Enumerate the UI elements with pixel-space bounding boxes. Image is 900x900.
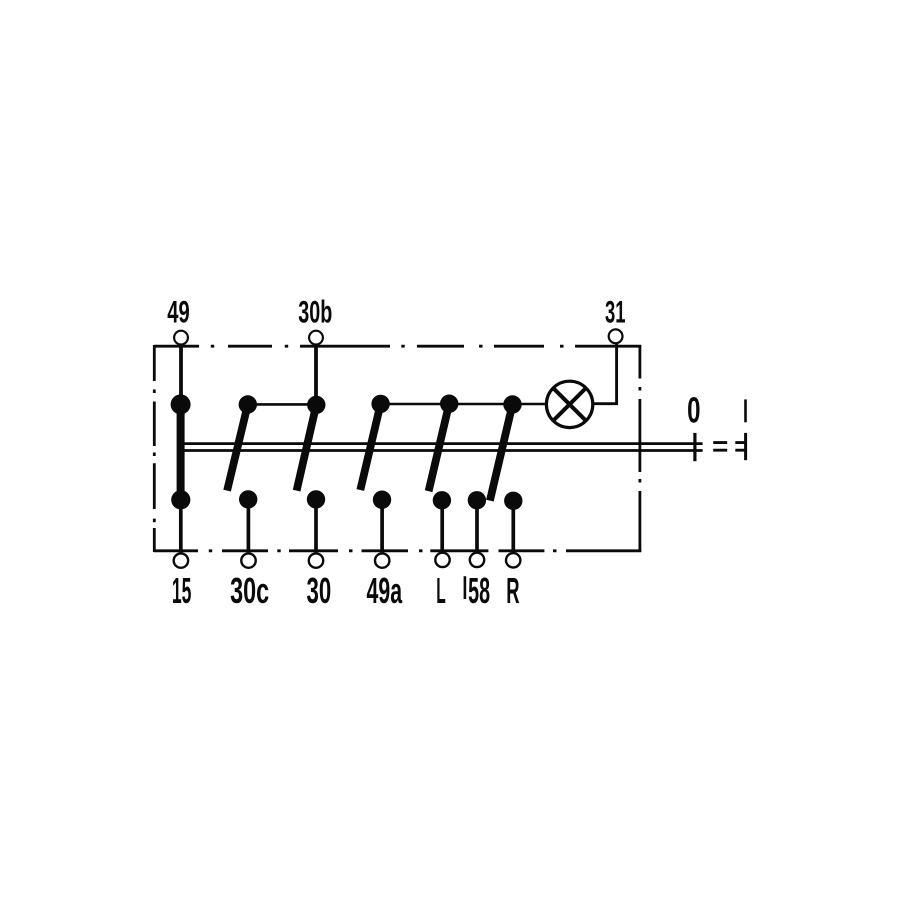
svg-text:30: 30 bbox=[307, 570, 332, 611]
svg-text:R: R bbox=[506, 570, 519, 611]
svg-text:49: 49 bbox=[167, 294, 189, 330]
svg-text:0: 0 bbox=[687, 390, 700, 431]
svg-text:31: 31 bbox=[605, 293, 626, 329]
svg-text:49a: 49a bbox=[367, 570, 403, 611]
svg-text:15: 15 bbox=[172, 570, 192, 611]
svg-text:58: 58 bbox=[468, 570, 490, 611]
svg-text:30c: 30c bbox=[230, 570, 269, 611]
svg-text:30b: 30b bbox=[298, 294, 332, 330]
svg-text:L: L bbox=[436, 570, 446, 611]
